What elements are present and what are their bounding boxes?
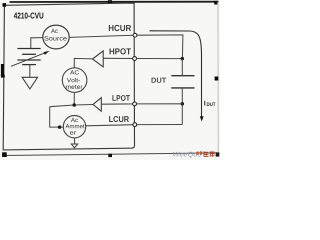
- ground arrow under ammeter: [71, 144, 77, 148]
- IDUT curved current arrow: [150, 31, 202, 117]
- watermark CJK 维: [204, 151, 215, 156]
- label 4210-CVU: [14, 13, 44, 19]
- wire HPOT buffer to terminal: [103, 57, 134, 59]
- figure bottom frame line: [3, 153, 219, 156]
- terminal node LPOT: [133, 102, 137, 106]
- watermark WeeQoo: [216, 152, 220, 156]
- label LCUR: [109, 116, 129, 122]
- wire HCUR: AC source to terminal: [69, 35, 135, 37]
- wire HCUR extension down to DUT top: [137, 35, 183, 59]
- wire battery to ground: [29, 65, 31, 78]
- wire LPOT buffer to terminal: [101, 103, 134, 105]
- label DUT: [152, 78, 167, 83]
- text Source: [44, 36, 66, 40]
- frame mark bottom-left: [2, 152, 7, 157]
- battery bar2 short: [22, 53, 36, 55]
- wire voltmeter top to HPOT buffer: [74, 58, 92, 68]
- text Ammet: [65, 124, 84, 128]
- watermark accent dot 1: [196, 152, 199, 155]
- label HPOT: [110, 48, 131, 54]
- text Ac (ammeter): [71, 118, 78, 122]
- label DUT subscript: [207, 102, 216, 106]
- watermark CJK 库: [210, 151, 215, 156]
- junction dot voltmeter/LPOT: [72, 103, 76, 107]
- capacitor DUT top plate: [171, 75, 194, 77]
- 4210-CVU instrument box: [3, 3, 134, 150]
- battery V1 (variable DC bias) bar1 long: [17, 48, 40, 50]
- watermark accent dot 2: [200, 151, 203, 154]
- battery bar4 short: [22, 64, 36, 66]
- wire HPOT to DUT top: [137, 58, 183, 60]
- AC ammeter M2: [63, 116, 85, 138]
- corner blob top-left of box: [3, 3, 7, 7]
- wire down to capacitor: [181, 59, 183, 76]
- junction dot DUT bottom: [181, 102, 185, 106]
- text meter: [66, 85, 82, 89]
- wire LCUR to DUT bottom: [137, 124, 183, 126]
- op-amp buffer U3 (LPOT): [93, 98, 101, 112]
- AC voltmeter M1: [62, 68, 87, 93]
- variable arrow across battery: [11, 53, 45, 67]
- label HCUR: [109, 25, 131, 31]
- terminal node LCUR: [133, 123, 137, 127]
- wire ammeter to ground: [74, 138, 76, 144]
- wire voltmeter bottom: [73, 92, 75, 105]
- wire capacitor bottom down: [181, 88, 183, 125]
- wire LPOT to DUT bottom: [137, 103, 183, 105]
- capacitor DUT bottom plate: [171, 87, 194, 89]
- terminal node HPOT: [133, 57, 137, 61]
- wire junction line to LPOT buffer: [50, 105, 93, 107]
- watermark WeeQoo: [173, 152, 201, 158]
- text Ac (source): [51, 29, 58, 33]
- wire AC source left to battery top: [31, 38, 44, 49]
- text er: [70, 131, 76, 134]
- label LPOT: [112, 95, 129, 101]
- thick segment on left border: [1, 64, 4, 76]
- wire down-left to ammeter: [50, 107, 64, 127]
- figure top frame line: [10, 1, 219, 3]
- AC source U1: [43, 25, 69, 49]
- frame mark bottom-mid: [108, 154, 112, 157]
- text Volt-: [67, 78, 80, 82]
- terminal node HCUR: [133, 33, 137, 37]
- junction dot DUT top: [181, 57, 185, 61]
- faint right frame border: [217, 2, 219, 153]
- op-amp buffer U2 (HPOT): [93, 51, 104, 67]
- ground arrow under battery: [22, 77, 37, 89]
- frame mark right edge: [215, 77, 219, 81]
- blob on left border: [1, 75, 5, 78]
- text AC (voltmeter): [70, 70, 79, 74]
- wire ammeter to LCUR terminal: [86, 125, 135, 126]
- frame mark top-right corner: [214, 1, 218, 5]
- frame mark top: [108, 0, 112, 3]
- label I of IDUT: [203, 101, 206, 106]
- junction dot at ammeter input: [58, 125, 62, 128]
- battery bar3 long: [17, 59, 40, 61]
